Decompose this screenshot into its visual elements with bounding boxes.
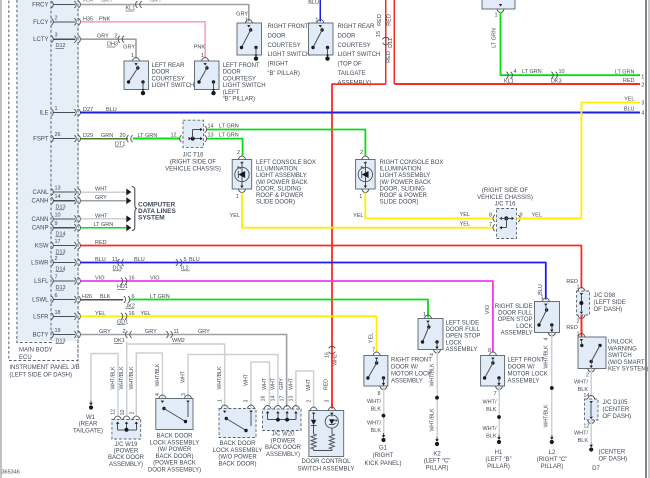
svg-text:WHT: WHT [288, 377, 294, 390]
ground H1 wire (left 'B' pillar) [498, 386, 500, 439]
tailgate-area switch box (cut off at top) [482, 0, 515, 9]
wire LT GRN to J/C T16 pin 12 [133, 138, 180, 140]
wire RED from top feed to long center drop [332, 84, 386, 403]
svg-text:LSFL: LSFL [34, 279, 49, 285]
svg-text:J/C T16: J/C T16 [495, 202, 517, 208]
svg-text:WHT/BLK: WHT/BLK [129, 366, 135, 390]
wire LT GRN T16 pin13 to left console box [207, 139, 243, 156]
wire YEL T16 pin 9 up to right edge [517, 217, 582, 219]
svg-text:BACK DOOR: BACK DOOR [265, 445, 302, 451]
wire LSFR YEL to right front door motor lock [81, 316, 377, 352]
svg-text:5: 5 [184, 257, 187, 263]
svg-text:ILE: ILE [39, 111, 48, 117]
svg-text:DOOR, SLIDING: DOOR, SLIDING [380, 186, 426, 192]
svg-text:PNK: PNK [194, 45, 206, 51]
svg-text:LSFR: LSFR [33, 314, 49, 320]
svg-text:YEL: YEL [624, 97, 634, 103]
svg-text:COURTESY: COURTESY [268, 43, 301, 49]
svg-text:LSWL: LSWL [32, 298, 49, 304]
svg-text:YEL: YEL [141, 311, 151, 317]
svg-text:20: 20 [120, 133, 126, 139]
connector KL1 (pin 4) [506, 72, 508, 79]
svg-text:1: 1 [641, 74, 644, 80]
svg-text:WHT: WHT [244, 373, 250, 386]
svg-text:16: 16 [325, 352, 331, 358]
svg-text:D11: D11 [388, 38, 394, 48]
svg-text:RIGHT FRONT: RIGHT FRONT [391, 358, 432, 364]
svg-text:BLK: BLK [578, 438, 589, 444]
svg-text:PILLAR): PILLAR) [541, 464, 564, 470]
svg-text:(TOP OF: (TOP OF [338, 62, 362, 68]
svg-text:17: 17 [55, 239, 61, 245]
svg-text:“B” PILLAR): “B” PILLAR) [223, 97, 255, 103]
svg-text:LEFT CONSOLE BOX: LEFT CONSOLE BOX [256, 160, 316, 166]
svg-text:J/C T16: J/C T16 [183, 153, 205, 159]
svg-text:(LEFT SIDE OF DASH): (LEFT SIDE OF DASH) [9, 373, 72, 379]
svg-text:7: 7 [493, 391, 496, 397]
svg-text:LIGHT SWITCH: LIGHT SWITCH [223, 83, 266, 89]
svg-text:RIGHT SLIDE: RIGHT SLIDE [495, 304, 533, 310]
svg-text:RIGHT FRONT: RIGHT FRONT [268, 24, 309, 30]
svg-text:VIO: VIO [485, 304, 491, 314]
main body ECU dashed box [17, 0, 51, 343]
left front door courtesy light switch [195, 61, 220, 90]
left console box illumination light assembly [232, 160, 252, 190]
svg-text:2: 2 [115, 34, 118, 40]
svg-text:L2: L2 [549, 450, 556, 456]
svg-text:H35: H35 [83, 16, 93, 22]
svg-text:BACK DOOR: BACK DOOR [108, 455, 145, 461]
wire YEL right console to J/C T16 pin 8 [365, 193, 493, 219]
LED inside door control switch [325, 415, 338, 428]
wire LT GRN T16 pin14 to right console box [207, 130, 365, 156]
wire WHT/BLK branch from DK1 to J/C W19 pin 10 and back door lock (w/o power) pin 1 [127, 342, 225, 408]
svg-text:LT GRN: LT GRN [522, 69, 542, 75]
svg-text:“B” PILLAR): “B” PILLAR) [268, 71, 300, 77]
svg-text:BACK DOOR: BACK DOOR [156, 434, 193, 440]
svg-text:RED: RED [324, 379, 330, 390]
svg-text:2: 2 [576, 319, 579, 325]
svg-text:LIGHT SWITCH: LIGHT SWITCH [268, 52, 311, 58]
wire FLCY PNK to left front door switch [81, 22, 206, 59]
svg-text:1: 1 [55, 106, 58, 112]
svg-text:(W/O POWER: (W/O POWER [218, 455, 257, 461]
wire LCTY GRY to left rear door switch [81, 39, 137, 58]
svg-text:(REAR: (REAR [79, 422, 98, 428]
svg-text:LOCK: LOCK [446, 340, 462, 346]
right slide door full open stop lock assembly [535, 302, 560, 333]
svg-text:ASSEMBLY: ASSEMBLY [508, 379, 540, 385]
svg-text:3: 3 [55, 33, 58, 39]
svg-text:BLU: BLU [308, 0, 319, 6]
svg-text:4: 4 [429, 353, 435, 356]
svg-text:6: 6 [55, 293, 58, 299]
svg-text:BLK: BLK [371, 407, 382, 413]
svg-text:WHT/BLK: WHT/BLK [429, 363, 435, 387]
svg-text:(W/ POWER: (W/ POWER [158, 447, 192, 453]
svg-text:WHT: WHT [262, 377, 268, 390]
svg-text:(RIGHT SIDE OF: (RIGHT SIDE OF [482, 188, 529, 194]
svg-text:2: 2 [306, 399, 312, 402]
svg-text:BLK: BLK [371, 428, 382, 434]
svg-text:(POWER: (POWER [114, 449, 139, 455]
svg-text:12: 12 [583, 424, 589, 430]
svg-text:1: 1 [315, 17, 318, 23]
wire FSPT GRN [81, 138, 129, 140]
svg-text:MOTOR LOCK: MOTOR LOCK [508, 372, 548, 378]
svg-text:D27: D27 [83, 107, 93, 113]
connector DT1 [127, 135, 129, 142]
left rear door courtesy light switch [124, 61, 149, 90]
svg-text:LOCK ASSEMBLY: LOCK ASSEMBLY [150, 440, 200, 446]
svg-text:DOOR: DOOR [152, 70, 171, 76]
back door lock assembly (w/o power back door) [219, 409, 256, 438]
svg-text:CANH: CANH [31, 199, 48, 205]
svg-text:H1: H1 [495, 450, 503, 456]
svg-text:BLK: BLK [486, 434, 497, 440]
svg-text:19: 19 [55, 328, 61, 334]
svg-text:BACK DOOR): BACK DOOR) [218, 461, 256, 467]
svg-text:14: 14 [55, 194, 61, 200]
svg-text:(W/O SMART: (W/O SMART [608, 360, 645, 366]
svg-text:LT GRN: LT GRN [94, 222, 114, 228]
svg-text:WHT/BLK: WHT/BLK [217, 366, 223, 390]
svg-text:ASSEMBLY: ASSEMBLY [391, 379, 423, 385]
svg-text:LSWR: LSWR [31, 261, 49, 267]
svg-text:LT GRN: LT GRN [615, 69, 635, 75]
svg-text:16: 16 [129, 276, 135, 282]
ground D7 (center of dash) [590, 443, 592, 447]
svg-text:OPEN STOP: OPEN STOP [446, 334, 481, 340]
svg-text:BLU: BLU [95, 257, 106, 263]
computer data lines system bracket [132, 187, 137, 231]
svg-text:1: 1 [236, 194, 239, 200]
back door lock assembly (w/ power back door) [156, 399, 193, 430]
svg-text:2: 2 [360, 150, 363, 156]
svg-text:H26: H26 [82, 294, 92, 300]
svg-text:BCTY: BCTY [32, 333, 48, 339]
svg-text:ROOF & POWER: ROOF & POWER [380, 193, 428, 199]
svg-text:LT GRN: LT GRN [492, 28, 498, 48]
svg-text:15: 15 [376, 31, 382, 37]
junction J/C W20 (power back door assembly) [263, 409, 302, 431]
svg-text:LT GRN: LT GRN [150, 294, 170, 300]
svg-text:WHT/BLK: WHT/BLK [119, 366, 125, 390]
svg-text:(LEFT SIDE: (LEFT SIDE [594, 300, 626, 306]
svg-text:ASSEMBLY): ASSEMBLY) [109, 462, 143, 468]
diode inside door control switch [313, 415, 315, 420]
wire ILE BLU to right edge pin 4 [81, 112, 641, 114]
svg-text:YEL: YEL [95, 311, 105, 317]
svg-text:VIO: VIO [150, 276, 160, 282]
svg-text:WHT/BLK: WHT/BLK [544, 345, 550, 369]
svg-text:11: 11 [112, 257, 118, 263]
svg-text:YEL: YEL [532, 213, 542, 219]
svg-text:1: 1 [217, 399, 223, 402]
wire RED J/C D98 to unlock warning switch [580, 315, 582, 337]
wire YEL right edge pin 3 to J/C T16 [581, 103, 640, 219]
svg-text:BLU: BLU [134, 257, 145, 263]
J/B inner boundary dashed line [77, 0, 79, 365]
ground K2 wire (left 'C' pillar) [436, 350, 438, 442]
left front door w/ motor lock assembly [481, 356, 505, 387]
connector DK3 (pin 10) [551, 72, 553, 79]
svg-text:FSPT: FSPT [33, 137, 49, 143]
svg-text:COURTESY: COURTESY [338, 43, 371, 49]
svg-text:12: 12 [171, 133, 177, 139]
svg-text:K2: K2 [433, 452, 441, 458]
svg-text:OPEN STOP: OPEN STOP [498, 317, 533, 323]
svg-text:GRY: GRY [101, 0, 113, 4]
svg-text:KSW: KSW [35, 244, 49, 250]
svg-text:TAILGATE: TAILGATE [338, 71, 366, 77]
svg-text:LEFT FRONT: LEFT FRONT [223, 63, 260, 69]
svg-text:DOOR: DOOR [223, 70, 242, 76]
svg-text:13: 13 [55, 186, 61, 192]
svg-text:BLU: BLU [189, 257, 200, 263]
svg-text:(RIGHT SIDE OF: (RIGHT SIDE OF [170, 160, 217, 166]
wire FRCY GRY to right front door switch [81, 5, 249, 22]
right console box illumination light assembly [356, 160, 376, 190]
svg-text:SWITCH: SWITCH [608, 353, 632, 359]
svg-text:INSTRUMENT PANEL J/B: INSTRUMENT PANEL J/B [9, 365, 79, 371]
svg-text:7: 7 [489, 222, 492, 228]
svg-text:VEHICLE CHASSIS): VEHICLE CHASSIS) [477, 195, 533, 201]
svg-text:H34: H34 [83, 0, 93, 4]
svg-text:2: 2 [641, 82, 644, 88]
svg-text:G1: G1 [379, 446, 388, 452]
svg-text:16: 16 [260, 396, 266, 402]
wire J/C W19 pin 2 to back door lock (w/ power) pin 4 [136, 353, 162, 415]
svg-text:COURTESY: COURTESY [223, 76, 256, 82]
svg-text:ECU: ECU [19, 355, 32, 361]
wire W1 ground rail to J/C W19 pin 12 [91, 354, 118, 416]
svg-text:GRY: GRY [150, 0, 162, 4]
svg-text:2: 2 [123, 329, 126, 335]
svg-text:GRN: GRN [101, 133, 113, 139]
svg-text:13: 13 [289, 396, 295, 402]
wire KSW RED to J/C D98 / unlock warning switch [81, 246, 582, 289]
svg-text:GRY: GRY [95, 195, 107, 201]
right rear door courtesy light switch [309, 23, 334, 55]
svg-text:(RIGHT “C”: (RIGHT “C” [537, 457, 568, 463]
svg-text:WARNING: WARNING [608, 346, 637, 352]
svg-text:3: 3 [325, 399, 331, 402]
svg-text:DOOR W/: DOOR W/ [391, 365, 418, 371]
wire back door lock (w/o power) pin 3 to J/C W20 pin 16 [251, 362, 270, 409]
svg-text:BLK: BLK [486, 407, 497, 413]
wire RED to right edge (pin 2) [394, 83, 640, 85]
svg-text:11: 11 [174, 329, 180, 335]
svg-text:(LEFT “B”: (LEFT “B” [485, 457, 511, 463]
svg-text:WHT: WHT [95, 187, 108, 193]
svg-text:26: 26 [55, 132, 61, 138]
svg-text:18: 18 [55, 310, 61, 316]
svg-text:3: 3 [244, 399, 250, 402]
svg-text:BLU: BLU [624, 107, 635, 113]
svg-text:WHT/BLK: WHT/BLK [544, 404, 550, 428]
svg-text:(POWER BACK: (POWER BACK [153, 461, 196, 467]
svg-text:D7: D7 [592, 466, 600, 472]
svg-text:FLCY: FLCY [33, 20, 48, 26]
svg-text:4: 4 [514, 69, 517, 75]
svg-text:WHT/BLK: WHT/BLK [155, 363, 161, 387]
wire back door lock (w/ power) pin 3 to J/C W20 pin 14 [188, 355, 278, 408]
wire RED WH2 to door control switch pin 3 [331, 404, 333, 409]
wire WHT/BLK unlock switch to J/C D105 [590, 369, 592, 398]
svg-text:10: 10 [559, 69, 565, 75]
svg-text:16: 16 [129, 311, 135, 317]
svg-text:OF DASH): OF DASH) [603, 414, 632, 420]
wire BLU from top to right rear door switch [319, 0, 321, 22]
svg-text:DOOR FULL: DOOR FULL [498, 311, 533, 317]
svg-text:LCTY: LCTY [33, 37, 48, 43]
svg-text:GRY: GRY [145, 329, 157, 335]
svg-text:9: 9 [55, 221, 58, 227]
junction J/C D105 (center of dash) [585, 399, 599, 420]
svg-text:(CENTER: (CENTER [603, 407, 630, 413]
svg-text:10: 10 [55, 212, 61, 218]
wire J/C W20 pin 13 to door control switch pin 2 [296, 371, 314, 409]
svg-text:W1: W1 [86, 415, 96, 421]
svg-text:2: 2 [130, 411, 136, 414]
svg-text:WHT/: WHT/ [574, 431, 589, 437]
svg-text:4: 4 [641, 111, 644, 117]
wire WHT/BLK J/C D105 to ground D7 [590, 420, 592, 443]
svg-text:LIGHT SWITCH: LIGHT SWITCH [338, 52, 381, 58]
svg-text:LIGHT SWITCH: LIGHT SWITCH [152, 83, 195, 89]
door control switch assembly [309, 411, 344, 457]
svg-text:FRCY: FRCY [32, 3, 48, 9]
wire YEL left console to J/C T16 pin 7 [242, 193, 493, 228]
svg-text:YEL: YEL [368, 333, 374, 343]
main body ECU fill [17, 0, 78, 341]
svg-text:SYSTEM: SYSTEM [138, 215, 165, 222]
svg-text:UNLOCK: UNLOCK [608, 340, 633, 346]
svg-text:8: 8 [377, 391, 380, 397]
wire BCTY GRY to J/C W20 pin 17 [81, 335, 287, 408]
svg-text:GRY: GRY [198, 329, 210, 335]
svg-text:17: 17 [280, 396, 286, 402]
svg-text:DOOR ASSEMBLY): DOOR ASSEMBLY) [148, 468, 201, 474]
svg-text:2: 2 [586, 373, 589, 379]
svg-text:WHT: WHT [270, 377, 276, 390]
svg-text:12: 12 [110, 409, 116, 415]
wire LSWR BLU to right slide door lock [81, 263, 546, 300]
svg-text:RIGHT REAR: RIGHT REAR [338, 24, 376, 30]
svg-text:ILLUMINATION: ILLUMINATION [380, 167, 422, 173]
svg-text:LOCK ASSEMBLY: LOCK ASSEMBLY [213, 448, 263, 454]
svg-text:YEL: YEL [230, 213, 240, 219]
svg-text:LOCK: LOCK [516, 324, 532, 330]
svg-text:BACK DOOR): BACK DOOR) [155, 454, 193, 460]
svg-text:(LEFT “C”: (LEFT “C” [424, 459, 451, 465]
svg-text:SLIDE DOOR): SLIDE DOOR) [380, 200, 419, 206]
svg-text:LIGHT ASSEMBLY: LIGHT ASSEMBLY [380, 173, 431, 179]
svg-text:RED: RED [386, 14, 392, 26]
svg-text:RED: RED [623, 78, 635, 84]
svg-text:CANL: CANL [32, 190, 49, 196]
wire LT GRN from tailgate switch [501, 12, 641, 75]
svg-text:(POWER: (POWER [271, 438, 296, 444]
svg-text:WHT/BLK: WHT/BLK [110, 366, 116, 390]
svg-text:PILLAR): PILLAR) [487, 464, 510, 470]
svg-text:GRY: GRY [99, 329, 111, 335]
svg-text:DOOR FULL: DOOR FULL [446, 327, 481, 333]
svg-text:(RIGHT: (RIGHT [373, 453, 394, 459]
svg-text:MOTOR LOCK: MOTOR LOCK [391, 372, 431, 378]
svg-text:D29: D29 [83, 133, 93, 139]
left slide door full open stop lock assembly [418, 319, 443, 350]
svg-text:GRY: GRY [279, 378, 285, 390]
svg-text:OF DASH): OF DASH) [599, 457, 628, 463]
svg-text:J/C W19: J/C W19 [114, 442, 138, 448]
svg-text:(RIGHT: (RIGHT [268, 62, 289, 68]
svg-text:365346: 365346 [2, 470, 20, 476]
svg-text:YEL: YEL [460, 212, 470, 218]
svg-text:YEL: YEL [353, 213, 363, 219]
svg-text:8: 8 [489, 213, 492, 219]
svg-text:VIO: VIO [95, 276, 105, 282]
svg-text:RED: RED [377, 14, 383, 26]
svg-text:2: 2 [55, 15, 58, 21]
svg-text:J/C W20: J/C W20 [271, 432, 295, 438]
svg-text:PILLAR): PILLAR) [426, 466, 449, 472]
svg-text:ROOF & POWER: ROOF & POWER [256, 193, 304, 199]
resistor right branch [329, 434, 334, 449]
svg-text:MAIN BODY: MAIN BODY [19, 348, 53, 354]
svg-text:DOOR: DOOR [338, 33, 357, 39]
svg-text:(W/ POWER BACK: (W/ POWER BACK [256, 180, 308, 186]
right front door w/ motor lock assembly [364, 356, 388, 387]
svg-text:ASSEMBLY: ASSEMBLY [501, 330, 533, 336]
svg-text:WHT/: WHT/ [367, 421, 382, 427]
svg-text:DOOR CONTROL: DOOR CONTROL [301, 459, 351, 465]
svg-text:ASSEMBLY: ASSEMBLY [446, 347, 478, 353]
svg-text:SLIDE DOOR): SLIDE DOOR) [256, 200, 295, 206]
svg-text:10: 10 [120, 410, 126, 416]
right page border [645, 0, 647, 478]
svg-text:OF DASH): OF DASH) [594, 307, 623, 313]
svg-text:WHT/: WHT/ [574, 380, 589, 386]
svg-text:DOOR, SLIDING: DOOR, SLIDING [256, 186, 302, 192]
left page border [0, 0, 2, 478]
svg-text:BLU: BLU [106, 107, 117, 113]
svg-text:2: 2 [237, 150, 240, 156]
svg-text:3: 3 [641, 101, 644, 107]
svg-text:GRY: GRY [123, 45, 135, 51]
svg-text:RIGHT CONSOLE BOX: RIGHT CONSOLE BOX [380, 160, 444, 166]
svg-text:WHT/: WHT/ [367, 399, 382, 405]
svg-text:CANP: CANP [32, 226, 49, 232]
svg-text:RED: RED [386, 51, 392, 63]
svg-text:7: 7 [55, 275, 58, 281]
svg-text:(CENTER: (CENTER [599, 450, 626, 456]
unlock warning switch (w/o smart key system) [578, 337, 606, 369]
svg-text:LT GRN: LT GRN [138, 133, 158, 139]
svg-text:GRY: GRY [97, 34, 109, 40]
connector D11 (pin 15) on left red wire [383, 37, 390, 39]
svg-text:VEHICLE CHASSIS): VEHICLE CHASSIS) [165, 167, 221, 173]
svg-text:WHT: WHT [181, 370, 187, 383]
svg-text:1: 1 [494, 13, 497, 19]
svg-text:WHT/BLK: WHT/BLK [429, 408, 435, 432]
wire RED vertical pair at top (battery feeds) [385, 0, 387, 84]
svg-text:14: 14 [271, 396, 277, 402]
svg-text:(LEFT: (LEFT [223, 90, 240, 96]
svg-text:14: 14 [583, 393, 589, 399]
ground G1 wire (right kick panel) [383, 386, 385, 437]
